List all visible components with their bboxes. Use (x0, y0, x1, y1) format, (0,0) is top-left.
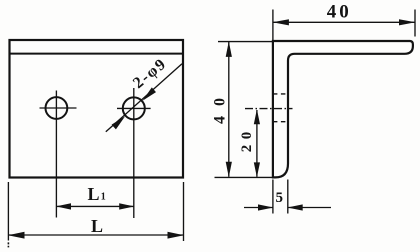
hole left vertical centerline (55, 91, 57, 218)
dim 40 top arrow right (399, 19, 416, 25)
hole left horizontal centerline (40, 107, 77, 109)
svg-text:2-φ9: 2-φ9 (130, 55, 170, 92)
label 20 (rotated) (239, 126, 255, 152)
svg-text:L: L (88, 184, 100, 204)
dim 40 left: extension bottom (215, 176, 273, 178)
dim L1 arrow right (119, 203, 134, 209)
svg-text:20: 20 (239, 126, 255, 152)
dim L arrow left (8, 232, 25, 239)
dim 40 top arrow left (272, 19, 289, 25)
L-profile outline (273, 41, 413, 177)
bend line (10, 53, 184, 55)
dim 40 top line (273, 21, 415, 23)
leader line 2-phi9 (through hole) (106, 64, 182, 132)
svg-text:L: L (91, 216, 103, 236)
hole right vertical centerline (133, 88, 135, 218)
leader arrow lower-left (112, 116, 126, 129)
dim 20 arrow down (254, 162, 260, 177)
svg-text:40: 40 (212, 88, 229, 124)
dim 5 tail left (244, 207, 273, 209)
dim 40 top: extension left (up from corner) (272, 10, 274, 42)
dim 5: extension right (leg right edge down) (287, 180, 289, 214)
dim 40 left arrow up (226, 41, 232, 57)
dim 40 top: extension right (414, 10, 416, 37)
dim L extension left (7, 182, 9, 241)
dim L arrow right (168, 232, 185, 239)
dim 5: extension left (leg left edge down) (272, 180, 274, 214)
svg-text:1: 1 (101, 191, 106, 202)
dim L extension right (183, 182, 185, 241)
hidden hole edge upper (273, 93, 288, 95)
dim 5 arrow left (points right) (258, 204, 273, 210)
svg-text:40: 40 (327, 2, 352, 23)
plate outline (10, 40, 184, 178)
dim 40 left line (228, 42, 230, 177)
dim 5 arrow right (points left) (287, 204, 302, 210)
hole left (46, 97, 68, 119)
dim 20 line (256, 110, 258, 177)
svg-text:5: 5 (276, 190, 284, 206)
label 2-phi9 (130, 55, 170, 92)
dim 5 tail right (288, 207, 331, 209)
dim 20 arrow up (254, 109, 260, 124)
dim L line (8, 234, 183, 236)
leader arrow upper-right (143, 87, 157, 100)
dim 40 left: extension top (218, 41, 273, 43)
label 40 left (rotated) (212, 88, 229, 124)
dim 40 left arrow down (226, 162, 232, 178)
hidden hole edge lower (273, 121, 288, 123)
dim L1 arrow left (56, 203, 71, 209)
dim L extension left lower dashes (7, 242, 9, 247)
dim L1 line (56, 205, 133, 207)
hole centerline (245, 108, 293, 110)
hole right (123, 97, 145, 119)
hole right horizontal centerline (117, 107, 151, 109)
